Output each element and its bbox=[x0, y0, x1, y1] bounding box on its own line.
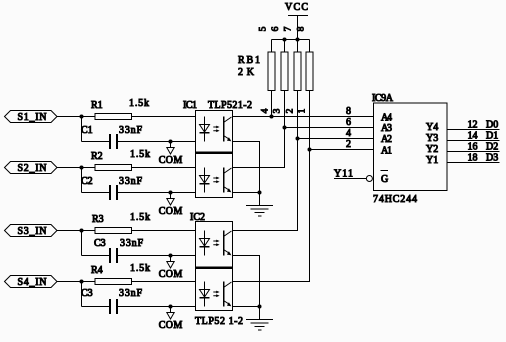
node RB1 pin2 junction bbox=[296, 137, 300, 141]
svg-text:Y4: Y4 bbox=[426, 122, 438, 133]
svg-text:33nF: 33nF bbox=[119, 288, 142, 299]
svg-text:IC2: IC2 bbox=[190, 212, 205, 223]
svg-text:2K: 2K bbox=[238, 67, 255, 78]
svg-text:TLP521-2: TLP521-2 bbox=[208, 100, 252, 111]
svg-text:A1: A1 bbox=[381, 146, 392, 157]
wire S1 row bbox=[57, 116, 196, 118]
svg-text:12: 12 bbox=[468, 120, 478, 131]
svg-text:S1_IN: S1_IN bbox=[18, 112, 47, 123]
node COM3 junction bbox=[169, 254, 173, 258]
node S4 junction bbox=[80, 280, 84, 284]
IC1 divider bbox=[196, 151, 233, 154]
svg-text:D0: D0 bbox=[486, 120, 498, 131]
svg-text:D3: D3 bbox=[486, 153, 498, 164]
IC1 ch1 light arrows bbox=[213, 126, 219, 133]
power VCC bbox=[285, 2, 308, 40]
resistor RB1 body D bbox=[306, 52, 313, 91]
resistor RB1 body C bbox=[294, 52, 301, 91]
wire S2 row bbox=[57, 167, 196, 169]
svg-text:TLP52 1-2: TLP52 1-2 bbox=[195, 316, 243, 327]
svg-text:8: 8 bbox=[346, 106, 351, 117]
IC2 ch1 light arrows bbox=[213, 240, 219, 247]
svg-text:S4_IN: S4_IN bbox=[18, 277, 47, 288]
IC2 ch2 LED bbox=[200, 282, 210, 307]
svg-text:R2: R2 bbox=[91, 151, 103, 162]
svg-text:A3: A3 bbox=[381, 123, 392, 134]
svg-text:8: 8 bbox=[297, 26, 307, 31]
IC1 ch2 light arrows bbox=[213, 177, 219, 184]
svg-text:C1: C1 bbox=[81, 125, 93, 136]
svg-text:D2: D2 bbox=[486, 142, 498, 153]
svg-text:R4: R4 bbox=[91, 265, 103, 276]
node RB1 pin4 junction bbox=[270, 115, 274, 119]
svg-text:33nF: 33nF bbox=[119, 125, 142, 136]
svg-text:C2: C2 bbox=[81, 176, 93, 187]
svg-text:Y3: Y3 bbox=[426, 133, 438, 144]
svg-text:Y1: Y1 bbox=[426, 155, 438, 166]
svg-text:C3: C3 bbox=[94, 238, 106, 249]
svg-text:Y2: Y2 bbox=[426, 144, 438, 155]
ground COM row2 bbox=[159, 193, 183, 218]
resistor RB1 body A bbox=[268, 52, 275, 91]
svg-text:1.5k: 1.5k bbox=[130, 263, 150, 274]
svg-text:D1: D1 bbox=[486, 131, 498, 142]
pin name G with overline bbox=[381, 171, 389, 186]
IC1 ch1 phototransistor bbox=[224, 117, 232, 142]
svg-text:1.5k: 1.5k bbox=[130, 212, 150, 223]
resistor R4 bbox=[95, 279, 132, 285]
svg-text:S3_IN: S3_IN bbox=[18, 226, 47, 237]
ground earth 2 bbox=[246, 320, 273, 331]
svg-text:74HC244: 74HC244 bbox=[373, 194, 417, 205]
wire Y2 out bbox=[447, 151, 500, 153]
resistor R2 bbox=[95, 165, 132, 171]
resistor R3 bbox=[95, 228, 132, 234]
ground COM row4 bbox=[159, 307, 183, 332]
RB1 bottom stub pin 2 routing to IC2 ch1 collector bbox=[233, 91, 298, 231]
svg-text:R1: R1 bbox=[91, 100, 103, 111]
capacitor C1 bbox=[82, 134, 196, 149]
wire Y4 out bbox=[447, 129, 500, 131]
RB1 bottom stub pin 1 routing to IC2 ch2 collector bbox=[233, 91, 310, 282]
wire IC1 ch1 collector to A4 bbox=[233, 116, 374, 118]
ground COM row1 bbox=[159, 142, 183, 167]
svg-text:7: 7 bbox=[284, 26, 294, 31]
svg-text:C3: C3 bbox=[81, 288, 93, 299]
node RB1 pin3 junction bbox=[283, 126, 287, 130]
IC2 ch2 phototransistor bbox=[224, 282, 232, 307]
svg-text:4: 4 bbox=[261, 108, 271, 113]
junction on VCC rail pin6 bbox=[283, 38, 287, 42]
svg-text:S2_IN: S2_IN bbox=[18, 163, 47, 174]
optocoupler IC1 box bbox=[196, 111, 233, 198]
IC1 ch1 LED bbox=[200, 117, 210, 142]
connector S4_IN bbox=[5, 276, 58, 289]
svg-text:1.5k: 1.5k bbox=[130, 149, 150, 160]
svg-text:COM: COM bbox=[159, 206, 183, 217]
node COM1 junction bbox=[169, 140, 173, 144]
buffer IC9A 74HC244 box bbox=[374, 103, 448, 191]
svg-text:R3: R3 bbox=[92, 214, 104, 225]
wire IC1 ch2 emitter bbox=[233, 192, 260, 194]
svg-text:18: 18 bbox=[468, 153, 478, 164]
wire S4 row bbox=[57, 281, 196, 283]
RB1 bottom stub pin 4 bbox=[271, 91, 273, 117]
node COM2 junction bbox=[169, 191, 173, 195]
wire C1 stem bbox=[81, 117, 83, 142]
svg-text:Y11: Y11 bbox=[334, 169, 353, 180]
wire A1 line bbox=[310, 149, 374, 151]
svg-text:6: 6 bbox=[271, 26, 281, 31]
IC1 ch2 phototransistor bbox=[224, 168, 232, 193]
svg-text:RB1: RB1 bbox=[238, 55, 260, 66]
svg-text:2: 2 bbox=[286, 108, 296, 113]
svg-text:16: 16 bbox=[468, 142, 478, 153]
ground COM row3 bbox=[159, 256, 183, 281]
svg-text:1.5k: 1.5k bbox=[129, 98, 149, 109]
capacitor C3 row4 bbox=[82, 299, 196, 314]
svg-text:COM: COM bbox=[159, 269, 183, 280]
IC2 divider bbox=[196, 266, 233, 269]
IC2 ch1 phototransistor bbox=[224, 231, 232, 256]
wire Y11 to G bbox=[334, 178, 366, 180]
IC2 ch1 LED bbox=[200, 231, 210, 256]
RB1 bottom stub pin 3 routing to IC1 ch2 collector bbox=[233, 91, 285, 168]
wire C3b stem bbox=[81, 282, 83, 307]
svg-text:IC1: IC1 bbox=[183, 100, 197, 111]
svg-text:A2: A2 bbox=[381, 134, 392, 145]
svg-text:4: 4 bbox=[346, 128, 351, 139]
ground earth 1 bbox=[246, 206, 273, 217]
svg-text:3: 3 bbox=[273, 108, 283, 113]
wire C2 stem bbox=[81, 168, 83, 193]
svg-text:G: G bbox=[381, 174, 388, 185]
svg-text:2: 2 bbox=[346, 139, 351, 150]
inverter bubble on G bbox=[366, 176, 372, 182]
svg-text:VCC: VCC bbox=[285, 2, 308, 13]
svg-text:14: 14 bbox=[468, 131, 478, 142]
node ground1 junction bbox=[258, 191, 262, 195]
wire A3 line bbox=[285, 127, 374, 129]
svg-text:6: 6 bbox=[346, 117, 351, 128]
node S1 junction bbox=[80, 115, 84, 119]
resistor RB1 body B bbox=[281, 52, 288, 91]
svg-text:A4: A4 bbox=[381, 113, 392, 124]
svg-text:COM: COM bbox=[159, 320, 183, 331]
node S3 junction bbox=[80, 229, 84, 233]
resistor R1 bbox=[95, 114, 132, 120]
wire C3 stem bbox=[81, 231, 83, 256]
wire Y1 out bbox=[447, 162, 500, 164]
svg-text:1: 1 bbox=[298, 108, 308, 113]
connector S3_IN bbox=[5, 225, 58, 238]
junction on VCC rail pin7 bbox=[296, 38, 300, 42]
svg-text:33nF: 33nF bbox=[119, 176, 142, 187]
wire A2 line bbox=[298, 138, 374, 140]
svg-text:33nF: 33nF bbox=[120, 238, 143, 249]
IC2 ch2 light arrows bbox=[213, 291, 219, 298]
connector S2_IN bbox=[5, 162, 58, 175]
IC1 ch2 LED bbox=[200, 168, 210, 193]
wire S3 row bbox=[57, 230, 196, 232]
node COM4 junction bbox=[169, 305, 173, 309]
node RB1 pin1 junction bbox=[308, 148, 312, 152]
wire IC2 ch1 emitter to ground bbox=[233, 256, 260, 320]
capacitor C2 bbox=[82, 185, 196, 200]
wire Y3 out bbox=[447, 140, 500, 142]
wire IC2 ch2 emitter bbox=[233, 306, 260, 308]
resistor network RB1 top rail bbox=[272, 39, 310, 41]
RB1 top stubs pins 5 6 7 8 bbox=[272, 40, 310, 53]
wire IC1 ch1 emitter to ground bbox=[233, 142, 260, 206]
node S2 junction bbox=[80, 166, 84, 170]
capacitor C3 row3 bbox=[82, 248, 196, 263]
connector S1_IN bbox=[5, 111, 58, 124]
node ground2 junction bbox=[258, 305, 262, 309]
optocoupler IC2 box bbox=[196, 222, 233, 311]
svg-text:COM: COM bbox=[159, 155, 183, 166]
svg-text:5: 5 bbox=[259, 26, 269, 31]
svg-text:IC9A: IC9A bbox=[372, 93, 394, 104]
